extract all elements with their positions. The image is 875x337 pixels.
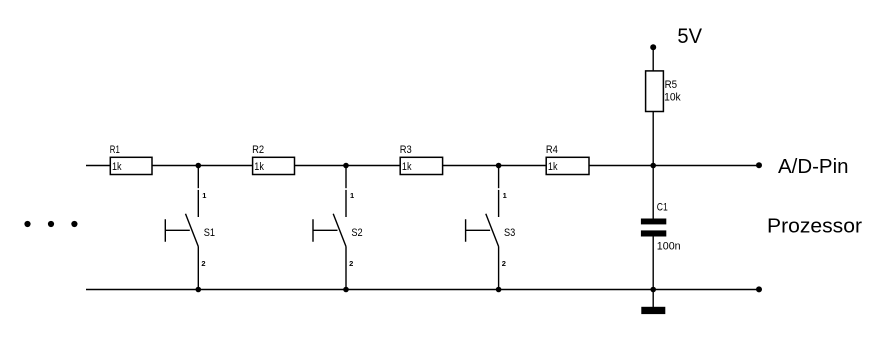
- resistor R5 body: [646, 71, 664, 112]
- svg-text:S1: S1: [204, 227, 215, 239]
- svg-text:R2: R2: [252, 144, 264, 156]
- svg-text:R1: R1: [110, 144, 120, 156]
- svg-text:1: 1: [503, 191, 507, 200]
- svg-text:1k: 1k: [254, 161, 264, 173]
- svg-text:S3: S3: [504, 227, 515, 239]
- node junction R1/R2/S1 (top): [196, 163, 202, 169]
- node junction S3/bottom rail: [496, 287, 502, 293]
- switch S1 contact arm: [186, 214, 199, 247]
- switch S3 pin 2 wire: [498, 247, 500, 290]
- resistor R1 body: [110, 157, 152, 174]
- node junction R4/R5/C1 (A/D node): [650, 163, 656, 169]
- switch S1 pin 1 wire: [197, 166, 199, 189]
- svg-text:1k: 1k: [402, 161, 412, 173]
- switch S3 contact arm: [486, 214, 499, 247]
- switch S2 pin 2 wire: [345, 247, 347, 290]
- svg-text:S2: S2: [351, 227, 362, 239]
- capacitor C1 bottom plate: [641, 230, 666, 236]
- wire bottom rail: [86, 289, 759, 291]
- switch S3 pin 1 wire: [498, 166, 500, 189]
- node junction S2/bottom rail: [343, 287, 349, 293]
- wire R5 to A/D node: [652, 112, 654, 166]
- terminal bottom right (processor ground): [756, 286, 762, 292]
- switch S1 actuator: [165, 219, 190, 242]
- svg-text:2: 2: [201, 259, 205, 268]
- resistor R3 body: [400, 157, 442, 174]
- wire C1 to bottom rail: [652, 237, 654, 290]
- svg-text:1: 1: [350, 191, 354, 200]
- switch S2 pin 1 wire: [345, 166, 347, 189]
- switch S1 pin 2 wire: [197, 247, 199, 290]
- wire top rail (A/D net): [86, 165, 759, 167]
- switch S2 actuator: [313, 219, 338, 242]
- node junction R2/R3/S2 (top): [343, 163, 349, 169]
- svg-text:R5: R5: [665, 79, 678, 91]
- svg-text:2: 2: [349, 259, 353, 268]
- svg-text:100n: 100n: [657, 241, 681, 253]
- svg-text:C1: C1: [657, 201, 668, 213]
- svg-text:2: 2: [502, 259, 506, 268]
- wire A/D node to C1: [652, 166, 654, 219]
- svg-text:1k: 1k: [112, 161, 122, 173]
- ground symbol: [641, 307, 665, 314]
- wire 5V to R5: [652, 47, 654, 71]
- resistor R2 body: [253, 157, 295, 174]
- svg-text:1: 1: [202, 191, 206, 200]
- svg-text:Prozessor: Prozessor: [767, 215, 862, 238]
- switch S3 actuator: [466, 219, 491, 242]
- node junction S1/bottom rail: [196, 287, 202, 293]
- svg-text:1k: 1k: [548, 161, 558, 173]
- terminal A/D-Pin: [756, 162, 762, 168]
- node junction R3/R4/S3 (top): [496, 163, 502, 169]
- svg-text:R3: R3: [400, 144, 412, 156]
- svg-text:R4: R4: [546, 144, 558, 156]
- svg-text:5V: 5V: [677, 25, 702, 48]
- capacitor C1 top plate: [641, 219, 666, 225]
- node junction C1/bottom rail: [650, 287, 656, 293]
- 5V supply terminal: [650, 44, 656, 50]
- svg-text:10k: 10k: [664, 92, 681, 104]
- switch S2 contact arm: [333, 214, 346, 247]
- continuation dots (ellipsis): [24, 221, 77, 227]
- svg-text:A/D-Pin: A/D-Pin: [778, 156, 849, 178]
- wire bottom rail to ground: [652, 290, 654, 308]
- resistor R4 body: [546, 157, 589, 174]
